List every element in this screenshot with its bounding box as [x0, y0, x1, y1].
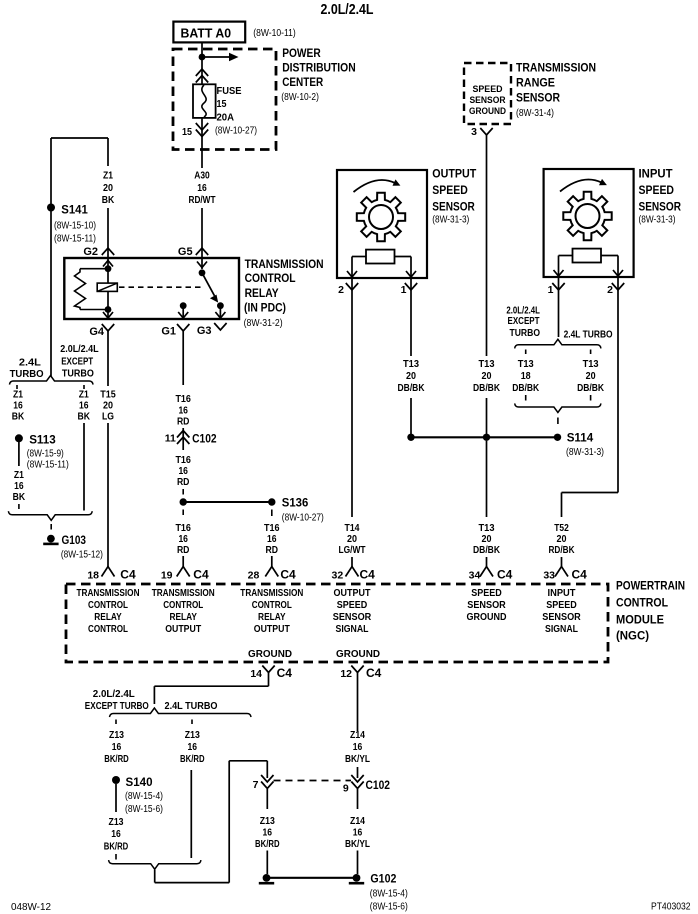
svg-text:(IN PDC): (IN PDC) — [244, 303, 286, 315]
svg-text:C4: C4 — [572, 568, 588, 582]
svg-text:LG: LG — [102, 410, 114, 422]
svg-text:C4: C4 — [280, 568, 296, 582]
transmission range sensor dashed box — [464, 63, 511, 124]
svg-text:GROUND: GROUND — [467, 612, 507, 623]
svg-text:MODULE: MODULE — [616, 614, 664, 626]
transmission control relay box — [64, 258, 239, 319]
svg-text:16: 16 — [197, 182, 207, 194]
svg-text:C4: C4 — [497, 568, 513, 582]
input speed sensor element — [573, 249, 602, 263]
svg-text:(8W-31-4): (8W-31-4) — [516, 108, 554, 119]
svg-text:SENSOR: SENSOR — [333, 612, 372, 623]
svg-text:20A: 20A — [217, 112, 235, 124]
svg-text:3: 3 — [471, 126, 477, 138]
fuse 15 20A — [193, 84, 216, 118]
svg-text:BK: BK — [78, 410, 91, 422]
svg-text:OUTPUT: OUTPUT — [334, 588, 371, 599]
svg-text:15: 15 — [217, 98, 227, 110]
svg-text:T13: T13 — [479, 358, 495, 370]
svg-text:CONTROL: CONTROL — [252, 600, 292, 611]
wire merge to connector 7 — [154, 870, 156, 883]
svg-text:GROUND: GROUND — [248, 649, 292, 660]
left variant brace — [10, 376, 94, 385]
svg-text:C102: C102 — [366, 778, 391, 792]
svg-text:RD: RD — [177, 476, 190, 488]
svg-text:9: 9 — [343, 783, 349, 795]
svg-text:2.4L TURBO: 2.4L TURBO — [564, 329, 613, 341]
svg-text:16: 16 — [188, 741, 198, 753]
svg-text:(8W-15-11): (8W-15-11) — [27, 460, 69, 471]
svg-text:C4: C4 — [193, 568, 209, 582]
svg-text:G2: G2 — [83, 246, 98, 258]
svg-text:18: 18 — [521, 370, 531, 382]
input speed sensor rotation arrow — [560, 180, 602, 192]
svg-text:(8W-10-27): (8W-10-27) — [215, 126, 257, 137]
input speed sensor box — [544, 169, 634, 277]
svg-text:(8W-10-27): (8W-10-27) — [282, 513, 324, 524]
svg-text:G3: G3 — [197, 325, 212, 337]
svg-text:SIGNAL: SIGNAL — [336, 624, 369, 635]
svg-text:T16: T16 — [175, 393, 191, 405]
svg-text:2.4L: 2.4L — [19, 357, 42, 369]
svg-text:34: 34 — [469, 570, 481, 582]
svg-text:LG/WT: LG/WT — [339, 544, 366, 556]
svg-text:(8W-15-6): (8W-15-6) — [370, 902, 408, 913]
svg-text:FUSE: FUSE — [217, 85, 242, 97]
arrow feed to other circuits — [202, 56, 229, 58]
svg-text:19: 19 — [161, 570, 173, 582]
wire T16 16 RD to PCM pin 19 — [182, 510, 184, 516]
svg-text:CONTROL: CONTROL — [88, 624, 128, 635]
svg-text:TURBO: TURBO — [10, 368, 44, 380]
splice S113 — [15, 434, 23, 442]
svg-text:TURBO: TURBO — [510, 327, 541, 339]
left branch stub — [16, 385, 18, 389]
wire pin 14 jog left — [268, 673, 270, 687]
powertrain control module dashed box — [66, 584, 608, 662]
relay coil element box — [97, 283, 117, 291]
svg-text:(8W-15-4): (8W-15-4) — [370, 889, 408, 900]
svg-text:SIGNAL: SIGNAL — [545, 624, 578, 635]
svg-text:20: 20 — [406, 370, 416, 382]
svg-text:DB/BK: DB/BK — [577, 382, 604, 394]
svg-text:1: 1 — [548, 284, 554, 296]
svg-text:Z14: Z14 — [350, 729, 365, 741]
svg-text:SENSOR: SENSOR — [516, 93, 561, 105]
svg-text:(8W-15-10): (8W-15-10) — [54, 221, 96, 232]
svg-text:TRANSMISSION: TRANSMISSION — [77, 588, 140, 599]
relay coil resistor — [80, 268, 108, 270]
wire Z13 16 BK/RD to ground — [266, 789, 268, 809]
svg-text:CONTROL: CONTROL — [163, 600, 203, 611]
relay coil wire G2 to G4 — [107, 258, 109, 319]
svg-text:DB/BK: DB/BK — [473, 382, 500, 394]
output speed sensor box — [337, 170, 427, 278]
svg-text:(NGC): (NGC) — [616, 630, 649, 642]
svg-text:S141: S141 — [61, 203, 88, 217]
svg-text:SENSOR: SENSOR — [467, 600, 506, 611]
svg-text:2: 2 — [338, 284, 344, 296]
svg-text:1: 1 — [401, 284, 407, 296]
svg-text:2.0L/2.4L: 2.0L/2.4L — [93, 688, 136, 700]
svg-text:14: 14 — [250, 668, 262, 680]
svg-text:G103: G103 — [62, 533, 87, 547]
svg-text:Z13: Z13 — [109, 729, 124, 741]
svg-text:RD: RD — [177, 544, 190, 556]
svg-text:16: 16 — [112, 741, 122, 753]
svg-text:G1: G1 — [161, 326, 176, 338]
svg-text:INPUT: INPUT — [548, 588, 576, 599]
svg-text:(8W-15-4): (8W-15-4) — [125, 791, 163, 802]
wire T13 20 DB/BK to PCM pin 34 — [486, 441, 488, 517]
svg-text:16: 16 — [353, 741, 363, 753]
svg-text:RD/WT: RD/WT — [189, 194, 216, 206]
svg-text:SENSOR: SENSOR — [432, 202, 475, 214]
svg-text:TURBO: TURBO — [62, 367, 94, 379]
svg-text:DISTRIBUTION: DISTRIBUTION — [282, 63, 356, 75]
svg-text:RD: RD — [266, 544, 279, 556]
svg-text:T13: T13 — [518, 358, 534, 370]
svg-text:EXCEPT: EXCEPT — [61, 356, 93, 368]
output speed sensor rotation arrow — [354, 180, 396, 192]
wire input sensor pin 2 jog — [617, 296, 619, 493]
wire BATT A0 to node — [201, 43, 203, 85]
svg-text:33: 33 — [543, 570, 555, 582]
svg-text:GROUND: GROUND — [336, 649, 380, 660]
svg-text:PT403032: PT403032 — [651, 902, 691, 913]
svg-text:TRANSMISSION: TRANSMISSION — [152, 588, 215, 599]
relay output G1 node — [180, 302, 187, 309]
svg-text:BK: BK — [12, 410, 25, 422]
svg-text:G102: G102 — [370, 872, 396, 886]
svg-text:RELAY: RELAY — [258, 612, 286, 623]
splice S141 — [50, 138, 52, 376]
svg-text:048W-12: 048W-12 — [11, 902, 51, 913]
svg-text:BATT A0: BATT A0 — [181, 25, 232, 40]
svg-text:(8W-10-2): (8W-10-2) — [281, 92, 319, 103]
fuse top connector double chevron — [196, 69, 208, 76]
ground G103 — [47, 535, 55, 543]
svg-text:SPEED: SPEED — [432, 185, 468, 197]
svg-text:INPUT: INPUT — [639, 169, 673, 181]
junction node to S136 — [180, 498, 187, 505]
output speed sensor element — [366, 250, 395, 264]
connector C102 dashed link — [274, 780, 352, 782]
svg-text:SPEED: SPEED — [546, 600, 577, 611]
svg-text:16: 16 — [14, 480, 24, 492]
power distribution center dashed box — [173, 49, 276, 150]
svg-text:(8W-15-9): (8W-15-9) — [27, 449, 64, 460]
splice S140 — [112, 776, 120, 784]
svg-text:Z13: Z13 — [260, 815, 275, 827]
svg-text:15: 15 — [182, 126, 192, 138]
ground G102 — [267, 877, 357, 879]
svg-text:TRANSMISSION: TRANSMISSION — [240, 588, 303, 599]
right branch stub — [83, 385, 85, 389]
svg-text:SPEED: SPEED — [471, 588, 502, 599]
svg-text:S114: S114 — [567, 431, 594, 445]
svg-text:20: 20 — [586, 370, 596, 382]
relay actuation dashed link — [119, 286, 204, 288]
wire G1 to C102 — [182, 331, 184, 385]
wire T52 20 RD/BK to PCM pin 33 — [561, 493, 563, 518]
svg-text:C102: C102 — [192, 432, 217, 446]
svg-text:28: 28 — [248, 570, 260, 582]
svg-text:C4: C4 — [120, 568, 136, 582]
svg-text:BK/RD: BK/RD — [180, 753, 205, 765]
svg-text:DB/BK: DB/BK — [512, 382, 539, 394]
svg-text:G5: G5 — [178, 246, 193, 258]
fuse bottom connector double chevron — [201, 118, 203, 168]
svg-text:Z14: Z14 — [350, 815, 365, 827]
svg-text:20: 20 — [103, 182, 113, 194]
svg-text:BK/RD: BK/RD — [104, 841, 129, 853]
svg-text:BK: BK — [102, 194, 115, 206]
svg-text:C4: C4 — [366, 666, 382, 680]
svg-text:RELAY: RELAY — [94, 612, 122, 623]
wire speed sensor ground T13 — [486, 135, 488, 356]
wire S141 branch horizontal — [51, 137, 108, 139]
battery feed box BATT A0 — [173, 22, 245, 43]
svg-text:SENSOR: SENSOR — [639, 202, 682, 214]
svg-text:SPEED: SPEED — [473, 84, 503, 95]
wire output sensor pin1 T13 20 DB/BK — [410, 296, 412, 356]
svg-text:16: 16 — [263, 827, 273, 839]
svg-text:S113: S113 — [29, 433, 56, 447]
input variant brace top — [515, 339, 601, 348]
svg-text:(8W-15-6): (8W-15-6) — [125, 804, 163, 815]
svg-text:CONTROL: CONTROL — [616, 598, 668, 610]
svg-text:POWERTRAIN: POWERTRAIN — [616, 581, 685, 593]
svg-text:SENSOR: SENSOR — [470, 95, 506, 106]
lower variant brace — [110, 708, 252, 717]
svg-text:C4: C4 — [277, 666, 293, 680]
wire input sensor pin 1 to brace — [558, 296, 560, 337]
svg-text:EXCEPT TURBO: EXCEPT TURBO — [85, 700, 149, 712]
wire Z14 16 BK/YL to ground — [357, 789, 359, 809]
svg-text:OUTPUT: OUTPUT — [165, 624, 201, 635]
input variant brace bottom — [515, 403, 601, 412]
svg-text:C4: C4 — [360, 568, 376, 582]
input speed sensor gear — [563, 192, 611, 240]
svg-text:7: 7 — [253, 779, 259, 791]
wire T15 20 LG from G4 to PCM pin 18 — [107, 331, 109, 386]
relay switch G5 to G3 — [201, 258, 203, 269]
svg-text:GROUND: GROUND — [469, 106, 506, 117]
svg-text:CONTROL: CONTROL — [245, 273, 296, 285]
svg-text:(8W-15-11): (8W-15-11) — [54, 234, 96, 245]
svg-text:DB/BK: DB/BK — [398, 382, 425, 394]
svg-text:BK/YL: BK/YL — [345, 753, 370, 765]
svg-text:(8W-31-2): (8W-31-2) — [244, 318, 283, 329]
svg-text:G4: G4 — [89, 326, 105, 338]
wire output sensor signal T14 20 LG/WT — [351, 296, 353, 517]
svg-text:Z13: Z13 — [109, 816, 124, 828]
node junction in PDC — [199, 54, 206, 61]
svg-text:POWER: POWER — [282, 48, 321, 60]
svg-text:(8W-31-3): (8W-31-3) — [566, 447, 604, 458]
splice S114 — [411, 436, 558, 438]
svg-text:2: 2 — [607, 284, 613, 296]
svg-text:(8W-31-3): (8W-31-3) — [639, 215, 676, 226]
svg-text:S140: S140 — [126, 775, 153, 789]
svg-text:2.4L TURBO: 2.4L TURBO — [165, 700, 218, 712]
svg-text:18: 18 — [87, 570, 99, 582]
svg-text:16: 16 — [353, 827, 363, 839]
svg-text:Z1: Z1 — [103, 170, 113, 182]
svg-text:EXCEPT: EXCEPT — [508, 315, 540, 327]
svg-text:12: 12 — [340, 668, 352, 680]
wire T16 16 RD to PCM pin 28 — [271, 510, 273, 517]
svg-text:TRANSMISSION: TRANSMISSION — [516, 63, 596, 75]
svg-text:(8W-15-12): (8W-15-12) — [61, 550, 103, 561]
svg-text:SPEED: SPEED — [639, 185, 675, 197]
svg-text:BK: BK — [13, 491, 26, 503]
svg-text:RELAY: RELAY — [245, 288, 279, 300]
connector C102 pin 11 — [182, 428, 184, 450]
svg-text:S136: S136 — [282, 496, 309, 510]
svg-text:RELAY: RELAY — [169, 612, 197, 623]
svg-text:11: 11 — [165, 433, 176, 445]
svg-text:SPEED: SPEED — [337, 600, 368, 611]
svg-text:SENSOR: SENSOR — [542, 612, 581, 623]
svg-text:2.0L/2.4L: 2.0L/2.4L — [60, 343, 99, 355]
svg-text:RD: RD — [177, 416, 190, 428]
svg-text:Z13: Z13 — [185, 729, 200, 741]
svg-text:BK/RD: BK/RD — [255, 838, 280, 850]
svg-text:BK/YL: BK/YL — [345, 838, 370, 850]
svg-text:2.0L/2.4L: 2.0L/2.4L — [321, 2, 374, 18]
svg-text:DB/BK: DB/BK — [473, 544, 500, 556]
svg-text:BK/RD: BK/RD — [104, 753, 129, 765]
output speed sensor gear — [357, 193, 405, 241]
svg-text:TRANSMISSION: TRANSMISSION — [245, 259, 324, 271]
svg-text:CONTROL: CONTROL — [88, 600, 128, 611]
svg-text:32: 32 — [332, 570, 344, 582]
wire Z1 20 BK — [107, 138, 109, 166]
svg-text:CENTER: CENTER — [282, 77, 324, 89]
svg-text:(8W-31-3): (8W-31-3) — [432, 215, 469, 226]
svg-text:20: 20 — [482, 370, 492, 382]
svg-text:OUTPUT: OUTPUT — [254, 624, 290, 635]
wire pin 12 Z14 16 BK/YL — [357, 673, 359, 732]
svg-text:RANGE: RANGE — [516, 78, 555, 90]
svg-text:A30: A30 — [194, 170, 210, 182]
splice S136 — [268, 498, 275, 505]
svg-text:T13: T13 — [583, 358, 599, 370]
ground merge brace G103 — [8, 511, 92, 520]
svg-text:16: 16 — [111, 828, 121, 840]
svg-text:(8W-10-11): (8W-10-11) — [253, 28, 296, 39]
lower merge brace — [109, 860, 201, 869]
svg-text:OUTPUT: OUTPUT — [432, 169, 476, 181]
svg-text:T13: T13 — [403, 358, 419, 370]
svg-text:RD/BK: RD/BK — [549, 544, 575, 556]
